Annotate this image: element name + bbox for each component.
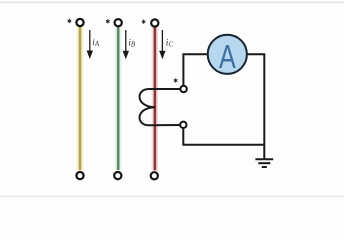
ammeter U1 bbox=[208, 35, 247, 76]
current arrow iA bbox=[87, 30, 93, 59]
terminal A top bbox=[76, 19, 83, 26]
wire from ammeter right to ground drop bbox=[247, 54, 264, 159]
phase C conductor (red wire) bbox=[152, 27, 159, 172]
terminal A bottom bbox=[76, 172, 83, 179]
polarity mark phase A bbox=[68, 19, 72, 23]
current arrow iC bbox=[159, 30, 165, 59]
wire from CT bottom terminal to ground drop bbox=[183, 128, 264, 145]
polarity mark phase C bbox=[142, 20, 146, 24]
top border hairline bbox=[0, 2, 344, 4]
current arrow iB bbox=[123, 30, 129, 59]
polarity mark phase B bbox=[106, 19, 110, 23]
svg-text:A: A bbox=[219, 39, 236, 76]
polarity mark CT secondary bbox=[174, 78, 178, 82]
svg-text:iC: iC bbox=[166, 39, 174, 49]
phase B conductor (green wire) bbox=[115, 27, 122, 172]
CT secondary terminal top bbox=[180, 86, 186, 92]
svg-text:iB: iB bbox=[128, 39, 136, 49]
terminal B bottom bbox=[114, 172, 121, 179]
ground bbox=[255, 159, 273, 167]
CT secondary terminal bottom bbox=[180, 122, 186, 128]
phase A conductor (yellow wire) bbox=[77, 27, 84, 172]
wire from CT top terminal up to ammeter bbox=[183, 54, 208, 85]
current transformer CT secondary winding on phase C bbox=[140, 89, 181, 125]
svg-text:iA: iA bbox=[92, 38, 100, 48]
bottom border hairline bbox=[0, 196, 344, 197]
terminal C bottom bbox=[151, 172, 158, 179]
terminal B top bbox=[115, 19, 122, 26]
terminal C top bbox=[151, 19, 158, 26]
